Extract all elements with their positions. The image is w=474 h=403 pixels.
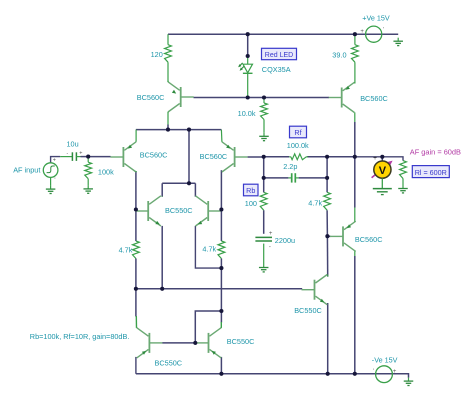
svg-text:-Ve 15V: -Ve 15V bbox=[372, 355, 398, 364]
wire VAS collector trunk upper bbox=[354, 122, 356, 157]
resistor 120 (R1) bbox=[165, 34, 172, 80]
svg-text:Rb: Rb bbox=[246, 186, 255, 195]
wire 2200u to ground bbox=[263, 244, 265, 264]
resistor 10.0k (R3) bbox=[261, 98, 268, 133]
svg-text:2.2p: 2.2p bbox=[283, 162, 297, 171]
resistor 4.7k left (R8) bbox=[133, 241, 140, 259]
label 2.2p bbox=[283, 162, 297, 171]
svg-text:AF gain = 60dB: AF gain = 60dB bbox=[410, 148, 461, 157]
wire mirror tee horizontal bbox=[162, 182, 195, 184]
label +Ve 15V bbox=[362, 13, 390, 22]
svg-text:BC550C: BC550C bbox=[165, 206, 193, 215]
capacitor 2200u (C3) bbox=[255, 231, 273, 251]
label 4.7k left bbox=[119, 245, 133, 254]
wire output to load bbox=[355, 157, 403, 161]
wire rail to bottom-left collector bbox=[135, 289, 137, 317]
label 10.0k bbox=[238, 109, 256, 118]
capacitor 2.2p (C2) bbox=[288, 173, 298, 182]
label 39.0 bbox=[332, 51, 346, 60]
note Rb/Rf gain bbox=[30, 332, 130, 341]
svg-text:10.0k: 10.0k bbox=[238, 109, 256, 118]
ground below 10.0k bbox=[259, 133, 269, 141]
svg-text:BC560C: BC560C bbox=[200, 152, 228, 161]
label Q3 BC560C bbox=[200, 152, 228, 161]
svg-text:BC560C: BC560C bbox=[360, 94, 388, 103]
svg-text:4.7k: 4.7k bbox=[308, 198, 322, 207]
label Rb box bbox=[244, 184, 259, 196]
wire driver collector drop bbox=[354, 256, 356, 374]
label Q2 BC560C bbox=[140, 150, 168, 159]
transistor Q5 BC550C (mirror right) bbox=[196, 196, 222, 226]
svg-text:2200u: 2200u bbox=[275, 236, 295, 245]
ground below voltmeter bbox=[373, 178, 392, 194]
svg-text:BC560C: BC560C bbox=[355, 235, 383, 244]
transistor Q9 BC550C (output bottom-left) bbox=[136, 316, 162, 358]
resistor 4.7k right branch (R7) bbox=[324, 192, 331, 210]
wire input node to base bbox=[88, 156, 110, 158]
AF input source VG1 bbox=[43, 157, 58, 184]
label Red LED box bbox=[262, 48, 297, 59]
label AF gain = 60dB bbox=[410, 148, 461, 157]
svg-text:Rb=100k, Rf=10R, gain=80dB.: Rb=100k, Rf=10R, gain=80dB. bbox=[30, 332, 130, 341]
wire LED drop from top rail bbox=[247, 34, 249, 56]
svg-text:-: - bbox=[269, 244, 271, 250]
wire crossing vertical 268-311 bbox=[220, 268, 222, 311]
wire left diff collector drop bbox=[135, 171, 137, 241]
wire top +V rail bbox=[168, 33, 398, 35]
transistor Q8 BC550C bbox=[302, 275, 328, 305]
power +Ve 15V source V1 bbox=[360, 26, 384, 42]
transistor Q6 BC560C (output top-right) bbox=[329, 82, 355, 122]
wire mirror-R emitter L-shape bbox=[195, 226, 221, 268]
wire voltmeter stub bbox=[381, 157, 383, 161]
wire tail down to mirror tee bbox=[188, 130, 190, 184]
wire right diff collector drop bbox=[220, 170, 222, 241]
svg-text:BC560C: BC560C bbox=[137, 93, 165, 102]
svg-text:+: + bbox=[79, 151, 82, 157]
label Q7 BC560C bbox=[355, 235, 383, 244]
label Rf box bbox=[290, 126, 307, 138]
label 4.7k mid bbox=[202, 244, 216, 253]
svg-text:+: + bbox=[53, 157, 56, 163]
wire right 4k7 to emitter node bbox=[220, 259, 222, 269]
label 100.0k bbox=[287, 141, 309, 150]
svg-text:': ' bbox=[373, 369, 374, 375]
svg-text:10u: 10u bbox=[67, 140, 79, 149]
svg-text:V: V bbox=[379, 165, 387, 177]
svg-text:BC560C: BC560C bbox=[140, 150, 168, 159]
svg-text:Rl = 600R: Rl = 600R bbox=[415, 168, 447, 177]
wire feedback rail right of Rf bbox=[307, 156, 355, 158]
resistor Rb 100 (R6) bbox=[260, 192, 267, 210]
wire bias node to driver base bbox=[327, 235, 330, 237]
wire left 4k7 to lower rail bbox=[135, 259, 137, 289]
label 100k bbox=[98, 168, 114, 177]
svg-text:100: 100 bbox=[245, 199, 257, 208]
label 10u bbox=[67, 140, 79, 149]
wire first-stage base rail y=97.5 bbox=[194, 97, 330, 99]
label -Ve 15V bbox=[372, 355, 398, 364]
ground below Rl bbox=[398, 185, 408, 193]
wire Rb to 2200u bbox=[263, 210, 265, 234]
transistor Q2 BC560C (diff left) bbox=[110, 130, 136, 172]
wire mirror-L emitter drop bbox=[161, 226, 163, 289]
svg-text:': ' bbox=[54, 178, 55, 184]
power -Ve 15V source V2 bbox=[373, 366, 397, 383]
wire 120R collector drop bbox=[167, 125, 169, 130]
resistor 100k (R4) bbox=[85, 157, 92, 186]
wire Rb branch vertical bbox=[263, 157, 265, 193]
wire lower base L-shape bbox=[195, 311, 221, 343]
resistor Rf 100.0k (R5) bbox=[289, 154, 308, 160]
ground right of -Ve source bbox=[404, 378, 414, 386]
label Q8 BC550C bbox=[294, 306, 322, 315]
transistor Q4 BC550C (mirror left) bbox=[135, 196, 162, 226]
transistor Q3 BC560C (diff right) bbox=[221, 130, 263, 172]
svg-text:+: + bbox=[393, 369, 397, 375]
wire feedback rail y=156.8 bbox=[264, 156, 290, 158]
svg-text:BC550C: BC550C bbox=[155, 358, 183, 367]
ground below 2200u bbox=[259, 264, 269, 272]
svg-text:Rf: Rf bbox=[294, 128, 301, 137]
label Q6 BC560C bbox=[360, 94, 388, 103]
label Q9 BC550C bbox=[155, 358, 183, 367]
svg-text:4.7k: 4.7k bbox=[202, 244, 216, 253]
label Q1 BC560C bbox=[137, 93, 165, 102]
wire output pair base link bbox=[162, 342, 195, 344]
ground right of +Ve source bbox=[393, 38, 403, 46]
wire bottom-right emitter drop bbox=[220, 357, 222, 374]
wire driver emitter trunk bbox=[354, 157, 356, 208]
wire 4k7 branch vertical bbox=[326, 157, 328, 193]
label 120 bbox=[151, 50, 163, 59]
label 2200u bbox=[275, 236, 295, 245]
svg-text:Red LED: Red LED bbox=[265, 52, 293, 59]
svg-text:CQX35A: CQX35A bbox=[262, 65, 291, 74]
svg-text:+: + bbox=[360, 29, 364, 35]
wire comp cap rail right bbox=[299, 177, 328, 179]
svg-text:39.0: 39.0 bbox=[332, 51, 346, 60]
svg-text:BC550C: BC550C bbox=[294, 306, 322, 315]
label Q4/Q5 BC550C bbox=[165, 206, 193, 215]
transistor Q1 BC560C (VAS top-left) bbox=[168, 80, 194, 124]
svg-text:BC550C: BC550C bbox=[227, 337, 255, 346]
wire bias dot to Q10 collector bbox=[220, 311, 222, 323]
svg-text:4.7k: 4.7k bbox=[119, 245, 133, 254]
svg-text:100.0k: 100.0k bbox=[287, 141, 309, 150]
svg-text:120: 120 bbox=[151, 50, 163, 59]
label 4.7k right branch bbox=[308, 198, 322, 207]
svg-text:+Ve 15V: +Ve 15V bbox=[362, 13, 390, 22]
capacitor 10u (C1) bbox=[60, 150, 82, 161]
svg-text:AF input: AF input bbox=[13, 166, 40, 175]
svg-text:+: + bbox=[373, 155, 377, 162]
label Rl box bbox=[412, 166, 449, 178]
svg-text:100k: 100k bbox=[98, 168, 114, 177]
wire T8 collector riser bbox=[327, 303, 329, 374]
label 100 bbox=[245, 199, 257, 208]
wire lower stage rail y=289 bbox=[136, 288, 302, 290]
wire cap to input node bbox=[81, 156, 89, 158]
wire comp cap rail y=177.9 bbox=[264, 177, 289, 179]
resistor Rl load (R10) bbox=[400, 161, 407, 185]
wire bias node down to collector bbox=[326, 236, 328, 276]
ground below 100k bbox=[83, 185, 93, 193]
wire -V source to ground bbox=[375, 374, 408, 378]
resistor 4.7k mid (R9) bbox=[218, 241, 225, 259]
label Q10 BC550C bbox=[227, 337, 255, 346]
label CQX35A bbox=[262, 65, 291, 74]
wire bottom-left emitter corner bbox=[135, 357, 137, 374]
label AF input bbox=[13, 166, 40, 175]
transistor Q7 BC560C (driver) bbox=[330, 208, 356, 257]
wire mirror tee right corner bbox=[194, 183, 196, 196]
wire AF source riser bbox=[51, 157, 61, 164]
wire 4k7 bottom to bias node bbox=[326, 210, 328, 236]
wire bottom -V rail bbox=[136, 373, 376, 375]
svg-text:+: + bbox=[269, 231, 273, 237]
transistor Q10 BC550C (output bottom-right) bbox=[196, 322, 222, 358]
svg-text:': ' bbox=[383, 28, 384, 34]
ground below AF input bbox=[46, 177, 56, 193]
wire diff-pair emitter rail bbox=[136, 129, 222, 131]
wire mirror tee left corner bbox=[161, 183, 163, 196]
LED D1 CQX35A bbox=[238, 56, 252, 98]
resistor 39.0 (R2) bbox=[352, 34, 359, 83]
voltmeter VM1 bbox=[372, 155, 393, 178]
